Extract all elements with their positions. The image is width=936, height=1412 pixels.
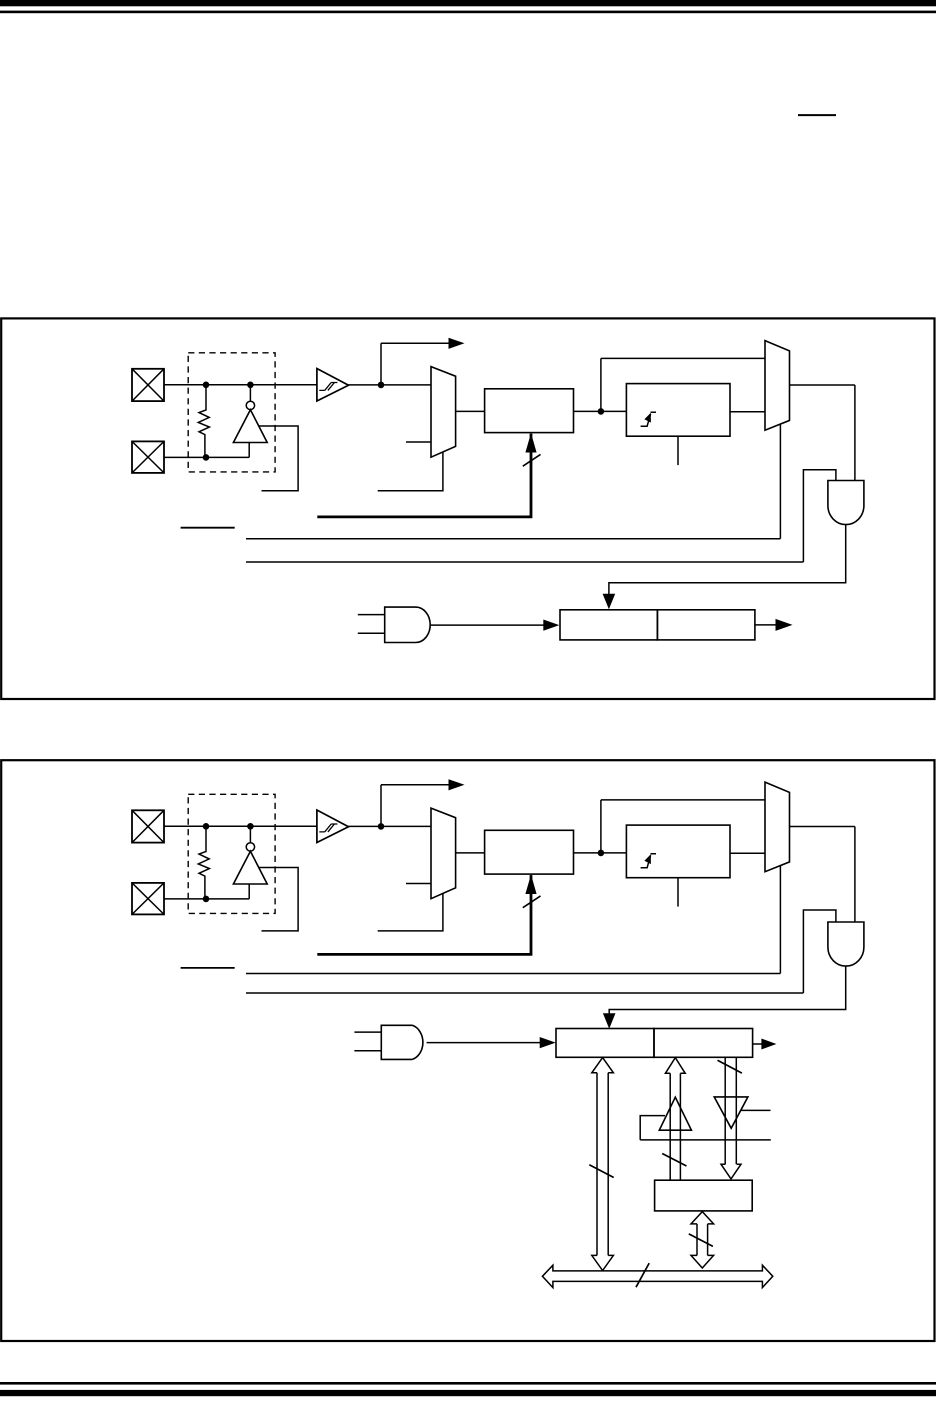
inverter triangle (fig2) <box>233 851 267 884</box>
buffer-up arrow shaft left line <box>669 1073 671 1180</box>
register load arrowhead (fig2) <box>603 1013 616 1028</box>
node junction E (fig2) <box>598 850 605 857</box>
left bus arrow width slash <box>589 1165 613 1178</box>
buffer-down arrow head <box>721 1164 741 1179</box>
wire mux1 to prescaler (fig2) <box>456 852 485 854</box>
latch bus arrow shaft left line <box>696 1224 698 1256</box>
AND output path to register (fig2) <box>609 966 846 1014</box>
wire node E up (fig1) <box>600 358 602 411</box>
rising-edge glyph (fig1) <box>641 412 656 426</box>
latch box outline fragment <box>640 1116 665 1140</box>
clock gate input stub 2 (fig1) <box>358 632 385 634</box>
counter box bottom stub (fig2) <box>677 878 679 907</box>
clock gate output arrowhead (fig2) <box>540 1037 556 1048</box>
wire prescaler to counter (fig2) <box>574 852 627 854</box>
node junction B (fig2) <box>247 823 254 830</box>
node junction A (fig2) <box>203 823 210 830</box>
buffer-down right shaft line <box>735 1058 737 1165</box>
dashed input-conditioning box (fig2) <box>188 794 275 913</box>
node junction B (fig1) <box>247 382 254 389</box>
rising-edge glyph (fig2) <box>641 854 656 868</box>
wire counter to mux2 (fig2) <box>730 852 765 854</box>
pin pad 1 diagonal b (fig2) <box>132 810 164 842</box>
counter register high half (fig1) <box>657 610 755 640</box>
mux 2 trapezoid (fig1) <box>765 341 790 431</box>
node junction C (fig1) <box>203 454 210 461</box>
wire pin2 horizontal (fig2) <box>164 898 249 900</box>
left bus arrow upper head <box>592 1058 614 1073</box>
wire node D up (fig2) <box>380 785 382 827</box>
buffer enable short line <box>741 1109 771 1111</box>
page bottom thin rule <box>0 1382 936 1385</box>
mux 2 trapezoid (fig2) <box>765 782 790 872</box>
register output arrowhead (fig2) <box>761 1039 776 1050</box>
schmitt hysteresis glyph (fig1) <box>319 383 337 391</box>
left bus arrow lower head <box>592 1255 614 1270</box>
pin pad 2 (fig1) <box>132 441 164 473</box>
buffer-up arrow width slash <box>662 1154 686 1167</box>
wire pin1 to schmitt input (fig2) <box>164 825 317 827</box>
AND left input line (fig1) <box>803 470 836 562</box>
left bus arrow shaft left line <box>596 1073 598 1256</box>
wire node E to mux2 top input (fig1) <box>601 357 765 359</box>
down 3-state buffer triangle <box>714 1097 748 1128</box>
mux 2 select line (fig1) <box>779 424 781 539</box>
wire counter to mux2 (fig1) <box>730 411 765 413</box>
wire schmitt to mux1 (fig2) <box>349 825 432 827</box>
page top thin rule <box>0 11 936 14</box>
inverter bubble (fig1) <box>246 401 254 409</box>
latch bus arrow lower head <box>691 1255 714 1268</box>
pull resistor (fig2) <box>198 826 209 899</box>
buffer-down left shaft line <box>724 1058 726 1165</box>
buffer-up arrow shaft right line <box>679 1073 681 1180</box>
mux 1 select line (fig1) <box>378 452 443 491</box>
pin pad 2 (fig2) <box>132 883 164 915</box>
clock gate input stub 1 (fig2) <box>354 1031 381 1033</box>
schmitt hysteresis glyph (fig2) <box>319 824 337 832</box>
mux 1 trapezoid (fig1) <box>431 367 456 458</box>
wire pin2 horizontal (fig1) <box>164 456 249 458</box>
node junction D (fig2) <box>378 823 385 830</box>
pin pad 2 diagonal a (fig2) <box>132 883 164 915</box>
mux 1 select line (fig2) <box>378 893 443 931</box>
long select line A (fig1) <box>246 538 780 540</box>
arrowhead top branch (fig2) <box>449 779 465 790</box>
up 3-state buffer triangle <box>659 1097 691 1130</box>
mux 1 second input stub (fig1) <box>406 441 431 443</box>
long select line B (fig2) <box>246 992 803 994</box>
wire pin1 to schmitt input (fig1) <box>164 384 317 386</box>
counter box (fig2) <box>626 825 730 878</box>
wire mux2 output down to AND (fig2) <box>854 827 856 923</box>
page bottom thick rule <box>0 1390 936 1396</box>
mux 1 trapezoid (fig2) <box>431 808 456 899</box>
clock gate output wire (fig2) <box>427 1042 542 1044</box>
edge-select elbow line (fig1) <box>259 426 298 491</box>
figure 1 border frame <box>1 318 934 699</box>
wire node B to inverter bubble (fig1) <box>249 385 251 401</box>
mux 1 second input stub (fig2) <box>406 883 431 885</box>
dashed input-conditioning box (fig1) <box>188 353 275 472</box>
wire node E up (fig2) <box>600 800 602 853</box>
pin pad 1 diagonal a (fig2) <box>132 810 164 842</box>
data bus double arrow outline <box>542 1265 772 1287</box>
latch bus arrow shaft right line <box>707 1224 709 1256</box>
rising-edge glyph arrowhead (fig2) <box>644 854 651 864</box>
buffer-down width slash <box>718 1060 742 1073</box>
wire mux2 output (fig1) <box>790 384 855 386</box>
wire to top-right arrow (fig2) <box>381 784 450 786</box>
bold clock bus slash (fig1) <box>523 454 541 466</box>
buffer-up arrow head <box>665 1058 685 1074</box>
bold clock bus slash (fig2) <box>523 896 541 908</box>
node junction A (fig1) <box>203 382 210 389</box>
register output wire (fig1) <box>755 624 776 626</box>
wire node E to mux2 top input (fig2) <box>601 799 765 801</box>
counter register low half (fig1) <box>560 610 657 640</box>
schmitt trigger buffer (fig1) <box>317 369 349 402</box>
latch bus arrow upper head <box>691 1212 714 1224</box>
bold clock feed line (fig1) <box>317 434 531 517</box>
counter box (fig1) <box>626 384 730 437</box>
mux 2 select line (fig2) <box>779 866 781 974</box>
AND gate (fig1) <box>828 481 864 525</box>
inverter triangle (fig1) <box>233 410 267 443</box>
inverter bubble (fig2) <box>246 843 254 851</box>
signal-name overline (fig1) <box>181 527 235 529</box>
clock gate output arrowhead (fig1) <box>543 620 559 631</box>
pin pad 1 (fig2) <box>132 810 164 842</box>
pin pad 1 diagonal b (fig1) <box>132 369 164 401</box>
pin pad 2 diagonal a (fig1) <box>132 441 164 473</box>
AND left input line (fig2) <box>803 910 836 993</box>
wire mux1 to prescaler (fig1) <box>456 410 485 412</box>
pull resistor (fig1) <box>198 385 209 458</box>
clock gate input stub 2 (fig2) <box>354 1050 381 1052</box>
prescaler box (fig2) <box>485 830 574 874</box>
data bus width slash <box>636 1263 649 1287</box>
wire mux2 output down to AND (fig1) <box>854 385 856 481</box>
pin pad 2 diagonal b (fig1) <box>132 441 164 473</box>
pin pad 1 diagonal a (fig1) <box>132 369 164 401</box>
AND output path to register (fig1) <box>609 525 846 595</box>
latch enable long line <box>640 1139 771 1141</box>
wire inverter output down (fig1) <box>248 443 250 458</box>
wire prescaler to counter (fig1) <box>574 410 627 412</box>
left bus arrow shaft right line <box>607 1073 609 1256</box>
arrowhead top branch (fig1) <box>449 338 465 349</box>
register load arrowhead (fig1) <box>603 594 616 610</box>
counter box bottom stub (fig1) <box>677 436 679 465</box>
counter register low half (fig2) <box>556 1029 654 1058</box>
bold clock arrowhead (fig1) <box>525 433 536 453</box>
clock gate output wire (fig1) <box>430 624 546 626</box>
rising-edge glyph arrowhead (fig1) <box>644 413 651 423</box>
bus latch box <box>655 1180 753 1211</box>
schmitt trigger buffer (fig2) <box>317 810 349 843</box>
edge-select elbow line (fig2) <box>259 868 298 931</box>
node junction D (fig1) <box>378 382 385 389</box>
pin pad 2 diagonal b (fig2) <box>132 883 164 915</box>
clock AND gate (fig2) <box>381 1025 423 1059</box>
long select line B (fig1) <box>246 561 803 563</box>
wire inverter output down (fig2) <box>248 884 250 899</box>
wire node B to inverter bubble (fig2) <box>249 826 251 842</box>
page top thick rule <box>0 0 936 6</box>
clock gate input stub 1 (fig1) <box>358 614 385 616</box>
pin pad 1 (fig1) <box>132 369 164 401</box>
node junction E (fig1) <box>598 408 605 415</box>
latch bus arrow width slash <box>689 1234 713 1247</box>
clock AND gate (fig1) <box>385 607 431 642</box>
prescaler box (fig1) <box>485 389 574 433</box>
bold clock feed line (fig2) <box>317 875 531 954</box>
wire to top-right arrow (fig1) <box>381 342 450 344</box>
register output arrowhead (fig1) <box>776 619 793 631</box>
AND gate (fig2) <box>828 922 864 966</box>
wire node D up (fig1) <box>380 343 382 385</box>
register output wire (fig2) <box>753 1043 762 1045</box>
bold clock arrowhead (fig2) <box>525 875 536 895</box>
counter register high half (fig2) <box>654 1029 753 1058</box>
header signal overline <box>798 114 836 116</box>
figure 2 border frame <box>1 760 934 1341</box>
signal-name overline (fig2) <box>181 967 235 969</box>
wire schmitt to mux1 (fig1) <box>349 384 432 386</box>
node junction C (fig2) <box>203 896 210 903</box>
long select line A (fig2) <box>246 973 780 975</box>
wire mux2 output (fig2) <box>790 826 855 828</box>
